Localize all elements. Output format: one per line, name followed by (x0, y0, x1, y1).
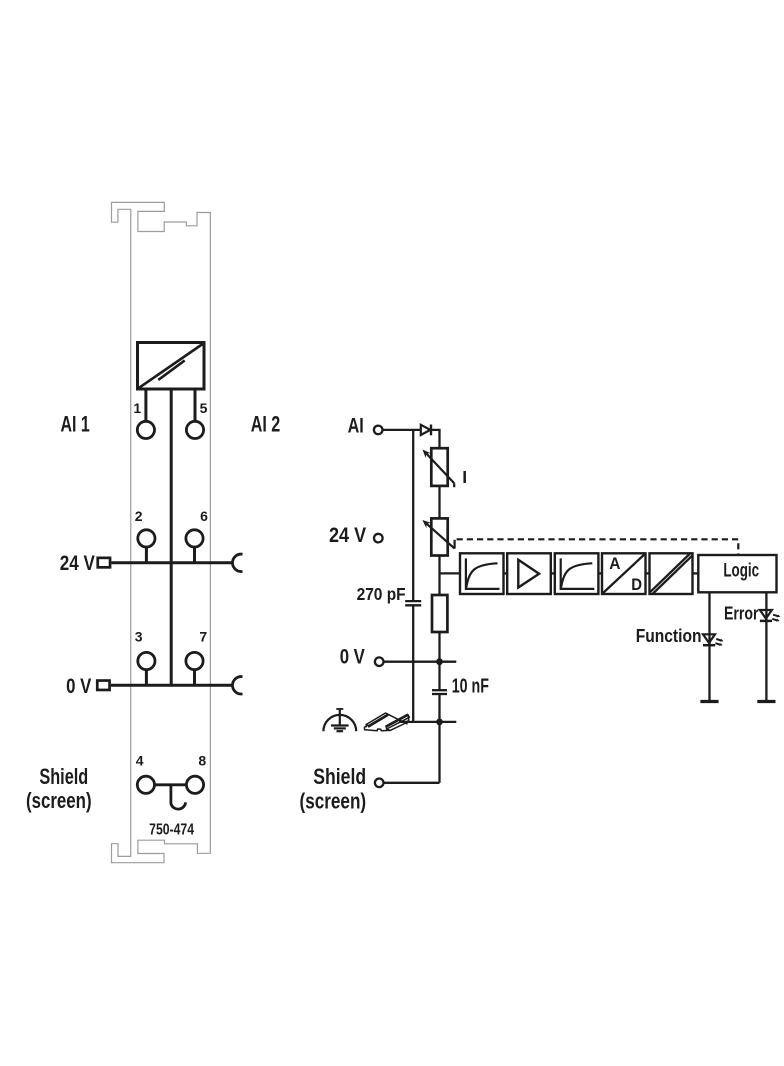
svg-text:Function: Function (636, 625, 702, 646)
terminal square 24V (98, 558, 110, 568)
block 4 A/D converter (602, 553, 646, 594)
DIN rail icon (364, 713, 409, 731)
terminal circle pin 1 (137, 421, 154, 438)
svg-text:8: 8 (198, 752, 206, 768)
wire pin 5 stub (194, 389, 197, 421)
terminal circle 0V circuit (375, 657, 384, 666)
wire shield link (155, 783, 187, 786)
wire block4-block5 (646, 572, 650, 574)
Logic box (698, 555, 776, 592)
svg-text:750-474: 750-474 (149, 822, 194, 839)
wire 0V rail circuit (384, 661, 457, 663)
wire diode to column (431, 430, 440, 448)
terminal circle pin 3 (138, 652, 155, 669)
diode D1 (421, 425, 431, 436)
terminal circle pin 8 (186, 776, 203, 793)
svg-text:(screen): (screen) (26, 788, 92, 813)
wire tap to block 1 (440, 572, 461, 574)
capacitor C2 10nF (432, 690, 447, 694)
svg-text:(screen): (screen) (300, 788, 367, 813)
terminal circle pin 2 (138, 530, 155, 547)
wire 24V rail (111, 561, 233, 564)
wire RV2 to resistor (438, 556, 440, 596)
svg-text:Logic: Logic (723, 560, 759, 581)
svg-text:6: 6 (200, 508, 208, 524)
electronics box U1 (138, 343, 205, 390)
capacitor C1 270pF (405, 601, 421, 605)
LED Error (760, 610, 781, 622)
wire shield rail stub (399, 721, 456, 723)
terminal square 0V (97, 681, 109, 690)
wire pin 6 stub (193, 547, 196, 563)
wire RV1 to RV2 (438, 486, 440, 519)
wire resistor to 0V node (438, 632, 440, 690)
terminal circle pin 7 (186, 652, 203, 669)
wire C1 to shield rail (412, 605, 414, 722)
terminal circle 24V circuit (374, 534, 383, 543)
wire pin 1 stub (144, 389, 147, 421)
svg-text:10 nF: 10 nF (452, 674, 489, 697)
wire internal bus (170, 389, 173, 685)
wire C2 to shield node and shield terminal drop (438, 694, 440, 783)
wire block2-block3 (551, 572, 555, 574)
terminal circle pin 4 (137, 776, 154, 793)
svg-text:AI: AI (348, 414, 364, 437)
svg-text:AI 2: AI 2 (251, 412, 281, 437)
terminal circle pin 6 (186, 530, 203, 547)
module outline 750-474 housing (112, 202, 211, 862)
wire pin 3 stub (145, 670, 148, 686)
wire Logic to Function LED (708, 592, 710, 701)
svg-text:4: 4 (136, 752, 144, 768)
node shield junction (436, 719, 443, 726)
block 1 filter (460, 553, 504, 594)
svg-text:1: 1 (133, 400, 141, 416)
connector hook 24V (232, 554, 242, 571)
wire Logic to Error LED (765, 592, 767, 701)
svg-text:0 V: 0 V (66, 675, 91, 698)
svg-text:AI 1: AI 1 (61, 412, 90, 437)
terminal bar Error (757, 700, 775, 703)
wire block1-block2 (504, 572, 508, 574)
connector hook 0V (232, 677, 242, 694)
svg-text:Shield: Shield (313, 764, 366, 789)
wire pin 7 stub (193, 670, 196, 686)
wire shield terminal (384, 782, 440, 784)
ground symbol (323, 709, 356, 731)
svg-text:2: 2 (135, 508, 143, 524)
block 2 amplifier (507, 553, 551, 594)
svg-text:I: I (462, 467, 467, 487)
terminal circle AI (374, 426, 383, 435)
wire block3-block4 (598, 572, 602, 574)
LED Function (703, 634, 724, 646)
block 3 filter (555, 553, 599, 594)
wire block5-Logic (693, 572, 699, 574)
shield hook (171, 785, 186, 809)
varistor RV1 adjustable (423, 448, 455, 487)
block 5 isolation (650, 553, 693, 594)
svg-text:0 V: 0 V (340, 645, 365, 668)
svg-text:7: 7 (199, 629, 207, 645)
wire 0V rail (111, 684, 233, 687)
svg-text:24 V: 24 V (60, 552, 95, 575)
varistor RV2 adjustable (422, 518, 454, 555)
resistor R1 (432, 595, 447, 632)
wire branch down from AI line (412, 430, 414, 601)
wire AI input (383, 429, 421, 431)
svg-text:D: D (631, 575, 642, 594)
wire pin 2 stub (145, 547, 148, 563)
node 0V junction (436, 658, 443, 665)
terminal circle Shield (375, 779, 384, 788)
svg-text:270 pF: 270 pF (357, 584, 406, 604)
dashed control line to Logic (457, 539, 739, 555)
svg-text:5: 5 (200, 400, 208, 416)
terminal bar Function (700, 700, 718, 703)
svg-text:Error: Error (724, 603, 759, 624)
svg-text:3: 3 (135, 629, 143, 645)
svg-text:24 V: 24 V (329, 524, 366, 547)
svg-text:Shield: Shield (39, 764, 88, 789)
svg-text:A: A (609, 554, 620, 573)
terminal circle pin 5 (186, 421, 203, 438)
